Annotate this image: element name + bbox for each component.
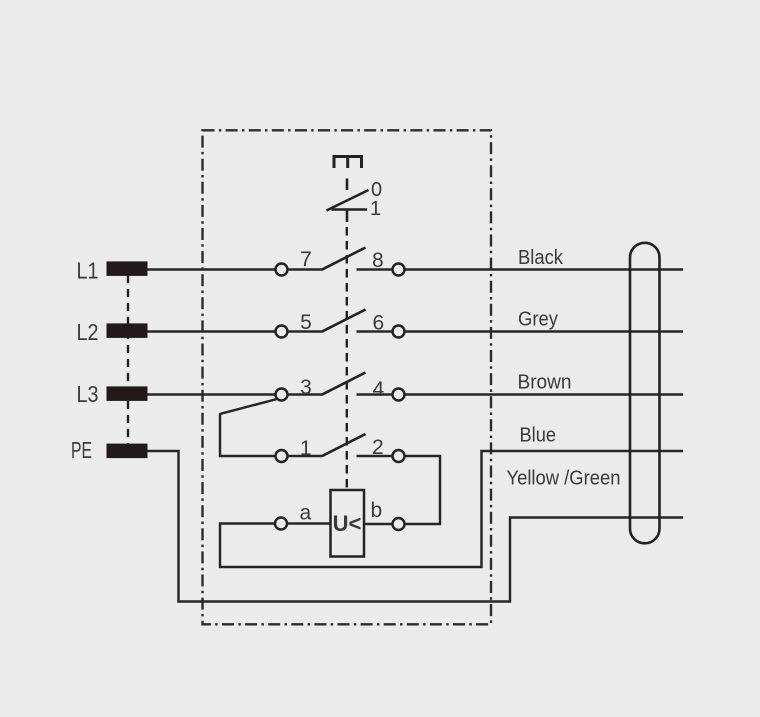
- contact circle 4: [393, 389, 405, 401]
- enclosure dash-dot box: [203, 130, 492, 624]
- svg-text:Grey: Grey: [518, 309, 558, 331]
- svg-text:a: a: [300, 502, 312, 525]
- svg-text:L3: L3: [77, 381, 99, 407]
- contact circle 3: [276, 389, 288, 401]
- svg-text:U<: U<: [333, 511, 362, 536]
- contact circle 2: [393, 450, 405, 462]
- svg-text:3: 3: [300, 376, 312, 399]
- wire PE to corner: [148, 451, 684, 602]
- wire stub contact 7: [288, 268, 324, 270]
- contact circle 1: [276, 450, 288, 462]
- terminal PE: [107, 444, 148, 459]
- contact circle 8: [393, 264, 405, 276]
- wire stub contact 8: [357, 268, 393, 270]
- blade contact 7-8: [323, 248, 366, 270]
- wire a to U box: [288, 522, 331, 524]
- terminal link dashed line: [127, 275, 129, 444]
- blade contact 3-4: [323, 373, 366, 395]
- wire L2 to contact 5: [148, 330, 276, 332]
- svg-text:1: 1: [300, 437, 312, 460]
- wire contact 4 to cable (Brown): [405, 393, 684, 395]
- svg-text:4: 4: [373, 378, 385, 401]
- svg-text:Black: Black: [518, 247, 564, 269]
- contact circle b: [393, 518, 405, 530]
- svg-text:1: 1: [370, 198, 381, 220]
- wire L3 to contact 3: [148, 393, 276, 395]
- wire stub contact 3: [288, 393, 324, 395]
- svg-text:L1: L1: [77, 258, 99, 284]
- svg-text:Yellow /Green: Yellow /Green: [507, 468, 621, 490]
- svg-text:PE: PE: [71, 437, 92, 463]
- wire contact 6 to cable (Grey): [405, 330, 684, 332]
- wire L1 to contact 7: [148, 268, 276, 270]
- mechanical linkage dashed line: [346, 227, 348, 490]
- wire contact 2 to contact b: [405, 456, 441, 524]
- terminal L3: [107, 386, 148, 401]
- blade contact 5-6: [323, 310, 366, 332]
- linkage dash below handle: [346, 179, 349, 191]
- svg-text:Brown: Brown: [518, 372, 572, 394]
- wire stub contact 2: [357, 455, 393, 457]
- svg-text:8: 8: [372, 249, 384, 272]
- terminal L2: [107, 323, 148, 338]
- wire contact 3 branch to contact 1: [220, 399, 277, 456]
- contact circle 5: [276, 326, 288, 338]
- svg-text:L2: L2: [77, 319, 99, 345]
- wire stub contact 6: [357, 330, 393, 332]
- contact circle 6: [393, 326, 405, 338]
- switch position indicator (0/1 actuator): [327, 190, 369, 222]
- svg-text:7: 7: [300, 248, 312, 271]
- wire stub contact 1: [288, 455, 324, 457]
- wire contact a loop to Blue: [220, 451, 683, 567]
- svg-text:5: 5: [300, 311, 312, 334]
- svg-text:Blue: Blue: [520, 425, 557, 447]
- contact circle 7: [276, 264, 288, 276]
- wire U box to b: [364, 523, 392, 525]
- contact circle a: [275, 518, 287, 530]
- svg-text:b: b: [371, 499, 383, 522]
- wire contact 8 to cable (Black): [405, 268, 684, 270]
- wire stub contact 4: [357, 393, 393, 395]
- undervoltage release U< box: [331, 490, 365, 557]
- terminal L1: [107, 261, 148, 276]
- svg-text:2: 2: [372, 436, 384, 459]
- handle (manual actuator symbol): [334, 157, 362, 169]
- cable sheath (stadium): [630, 243, 660, 544]
- svg-text:6: 6: [373, 312, 385, 335]
- wire stub contact 5: [288, 330, 324, 332]
- blade contact 1-2: [323, 434, 366, 456]
